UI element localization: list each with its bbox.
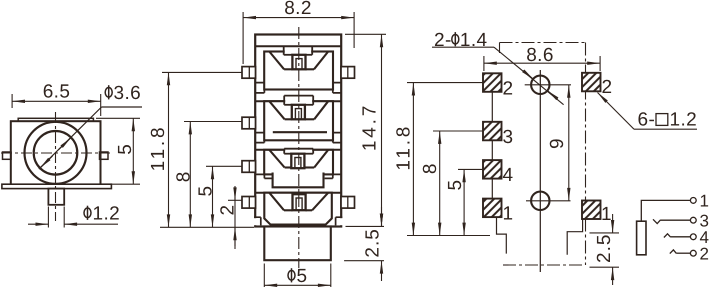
svg-text:4: 4 [503,165,514,186]
svg-text:1: 1 [601,204,612,225]
throat (open bottom) [285,149,312,154]
svg-text:1: 1 [700,191,710,210]
dim 2.5 (right) [590,214,620,285]
svg-text:1: 1 [503,204,514,225]
ext pin2 [184,121,242,123]
pad L2 [483,73,502,92]
svg-text:8: 8 [420,163,441,174]
side shelf unit2 right [333,133,341,143]
left pads column line [491,82,493,208]
svg-text:8.2: 8.2 [284,0,312,19]
left pin 4 [242,197,256,209]
baseline extension [160,226,254,228]
pin 1 circle [690,198,696,204]
hole 2 [531,192,549,210]
side shelf unit1 right [333,83,341,93]
phi symbol for 1.2 [84,206,91,220]
pin 4 contact [664,234,671,238]
dim 14.7 [345,34,386,226]
unit 2 [264,96,333,141]
side steps unit3 [256,174,273,178]
svg-text:2.5: 2.5 [594,234,615,263]
left pin 3 [242,161,256,173]
hole 1 crosshair [525,84,571,86]
inner circle phi3.6 [34,131,78,175]
crown with chamfered bottom [264,193,332,225]
slants [269,52,284,70]
outer circle [25,122,87,184]
svg-text:1.4: 1.4 [460,30,488,51]
left pin 1 [242,67,256,79]
body [255,35,341,227]
head [292,55,305,70]
unit 1 [264,46,333,89]
dim 5 (left view) [96,118,140,184]
svg-text:2: 2 [602,77,613,98]
ext pad2 [407,82,483,84]
partition 3/4 [255,192,341,194]
crown rect [264,52,333,90]
left leg step [497,217,507,254]
dim 6.5 [12,94,101,116]
svg-text:2: 2 [218,205,239,216]
center dash line [298,27,300,268]
svg-text:8: 8 [174,171,195,182]
body corner notch left [254,218,261,225]
body corner notch right [336,218,343,225]
base block [264,227,331,261]
bottom flange [2,184,112,188]
svg-text:2.5: 2.5 [363,228,384,257]
phi symbol for 3.6 [105,85,112,99]
bar [273,131,327,133]
body [11,121,101,184]
hole 1 [531,76,549,94]
dim 8 [439,131,441,236]
side shelf unit2 left [256,133,265,143]
centerline vertical [55,112,57,221]
pad R2 [582,73,601,92]
ext pin3 [206,165,242,167]
tab above (open bottom) [285,97,312,105]
svg-text:2: 2 [700,245,710,264]
pad R1 [582,201,601,220]
dim 2.5 (middle) [344,207,384,281]
side shelf unit1 left [256,83,265,93]
schematic pin numbers [700,191,710,263]
dim phi1.2 [28,207,118,228]
center vertical line [539,70,541,272]
svg-text:1.2: 1.2 [670,110,698,131]
svg-text:3: 3 [503,127,514,148]
leader phi3.6 [39,107,142,169]
dim 11.8 [168,72,170,227]
pad L1 [483,199,502,218]
svg-text:6-: 6- [638,110,656,131]
partition 1/2 [255,100,341,102]
cap line [255,45,341,47]
svg-text:14.7: 14.7 [360,103,381,151]
svg-text:5: 5 [115,144,136,155]
baseline ext [407,235,490,237]
svg-text:5: 5 [445,180,466,191]
svg-text:11.8: 11.8 [394,124,415,171]
ext pad4 [458,168,483,170]
centerline horizontal [1,152,110,154]
leader 6-sq1.2 [598,93,698,130]
partition 2/3 [255,149,341,151]
phi symbol for 5 [288,268,295,282]
phi symbol for 2-phi1.4 [452,32,459,46]
left nub [3,152,12,159]
jack body rect [637,221,646,255]
ext pin1 [162,71,242,73]
dim 8.6 [484,56,600,71]
ext pad3 [433,130,483,132]
dim phi5 [264,264,331,288]
leader 2-phi1.4 [432,47,564,104]
pin 3 contact [653,219,661,223]
pedestal [273,173,324,188]
svg-text:5: 5 [196,186,217,197]
dim 5 [463,169,465,235]
svg-text:9: 9 [547,138,568,149]
svg-text:11.8: 11.8 [148,125,169,172]
unit 3 [256,149,342,188]
svg-text:1.2: 1.2 [93,204,121,225]
right nub [100,152,109,159]
throat (open bottom) [285,49,312,55]
notch bottoms [284,68,292,70]
svg-text:5: 5 [297,266,308,287]
pad L4 [483,160,502,179]
top plate [18,118,93,121]
dim 8.2 [243,12,354,64]
svg-text:2: 2 [503,78,514,99]
dim 9 [568,85,570,201]
dim 5 [212,166,214,227]
ext pin4 [228,199,242,201]
pin 2 contact [670,250,677,254]
svg-text:2-: 2- [434,30,452,51]
pad L3 [483,122,502,141]
right view dims left side [407,83,490,236]
right leg step [567,219,582,255]
pin [48,189,64,205]
dim 2 (outside arrows) [234,186,236,249]
chain outline box [500,43,586,266]
crown rect [264,150,333,175]
right pin 4 [341,197,355,209]
right pin 1 [341,67,355,79]
svg-text:3.6: 3.6 [114,83,142,104]
dim 11.8 [412,83,414,236]
svg-text:6.5: 6.5 [43,82,71,103]
hole 2 crosshair [526,200,571,202]
left pin 2 [242,117,256,129]
crown rect [264,101,333,140]
wire to pin 1 [641,200,690,221]
dim 8 [189,122,191,228]
unit 4 [254,193,343,226]
svg-text:8.6: 8.6 [526,45,554,66]
square symbol for 6-sq1.2 [656,114,668,126]
